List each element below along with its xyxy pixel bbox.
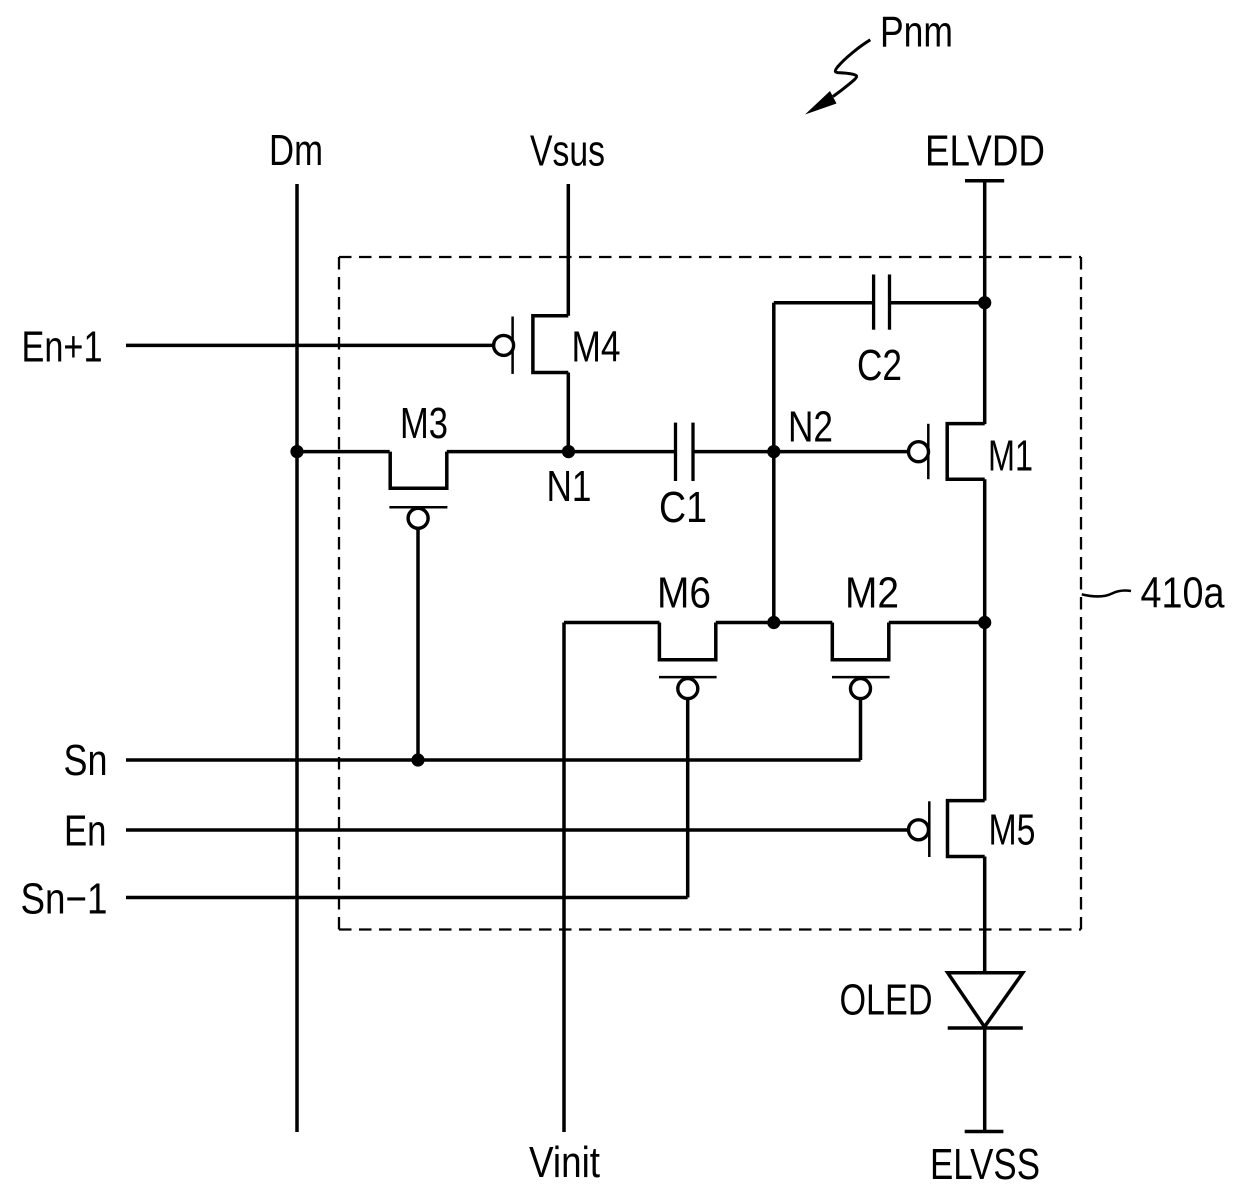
wire Dm vertical line (295, 184, 299, 1132)
wire En+1 horizontal (126, 344, 494, 348)
power terminal ELVSS (965, 1130, 1004, 1134)
svg-text:En+1: En+1 (22, 323, 103, 372)
svg-text:M2: M2 (845, 569, 899, 618)
svg-text:M6: M6 (657, 569, 711, 618)
wire rail M5 to OLED (983, 857, 987, 973)
dashed box 410a pixel boundary (339, 257, 1081, 930)
svg-text:Dm: Dm (269, 126, 323, 175)
junction dot Sn/M3 gate (411, 753, 424, 766)
svg-text:C2: C2 (857, 341, 902, 390)
capacitor C2 (874, 275, 890, 330)
wire C1 to N2 to M1 gate (693, 450, 909, 454)
node N1 junction dot (562, 445, 575, 458)
wire M4 drain to N1 (567, 373, 571, 452)
svg-text:Sn−1: Sn−1 (21, 875, 108, 924)
wire M6 to M2 row (716, 621, 833, 625)
wire M2 to ELVDD rail (889, 621, 985, 625)
wire Sn horizontal (126, 758, 861, 762)
svg-text:ELVDD: ELVDD (925, 127, 1045, 176)
wire M6/M2 row left (Vinit corner) (564, 621, 660, 625)
transistor M2 (832, 623, 890, 699)
node N2 junction dot (767, 445, 780, 458)
svg-text:N2: N2 (788, 403, 833, 452)
transistor M1 (909, 424, 985, 480)
svg-text:M5: M5 (989, 806, 1036, 855)
svg-text:M4: M4 (572, 323, 621, 372)
wire OLED to ELVSS (983, 1028, 987, 1132)
leader squiggle to 410a (1082, 590, 1131, 596)
junction dot N2 branch/row (767, 616, 780, 629)
capacitor C1 (676, 423, 694, 481)
junction dot C2/ELVDD rail (978, 296, 991, 309)
wire Vsus vertical line (567, 184, 571, 316)
svg-text:Vsus: Vsus (530, 127, 605, 176)
transistor M4 (494, 316, 569, 374)
transistor M6 (659, 623, 717, 699)
wire M2 gate stem to Sn (859, 698, 863, 760)
wire M6 gate stem to Sn-1 (686, 698, 690, 897)
power terminal ELVDD (965, 179, 1004, 183)
svg-text:N1: N1 (547, 462, 592, 511)
wire Sn-1 horizontal (126, 896, 688, 900)
svg-text:M1: M1 (988, 432, 1033, 481)
leader arrow to Pnm (805, 40, 870, 115)
transistor M5 (909, 801, 985, 857)
wire M3 to N1 to C1 (447, 450, 676, 454)
wire C2 right lead (890, 301, 985, 305)
svg-text:410a: 410a (1141, 569, 1225, 618)
svg-text:Pnm: Pnm (880, 8, 953, 57)
svg-text:Vinit: Vinit (529, 1138, 600, 1187)
junction dot row/ELVDD rail (978, 616, 991, 629)
svg-text:En: En (64, 807, 107, 856)
wire ELVDD rail upper (983, 181, 987, 424)
wire N2 vertical branch (772, 303, 776, 623)
wire Dm to M3 (297, 450, 390, 454)
wire M3 gate stem to Sn (416, 528, 420, 760)
wire rail M1 to M5 (983, 479, 987, 800)
junction dot Dm/M3 (290, 445, 303, 458)
wire Vinit vertical line (562, 623, 566, 1133)
transistor M3 (389, 452, 447, 529)
wire En horizontal (126, 828, 909, 832)
diode OLED (948, 973, 1023, 1028)
svg-text:C1: C1 (659, 483, 707, 532)
svg-text:ELVSS: ELVSS (930, 1140, 1040, 1189)
svg-text:Sn: Sn (64, 736, 108, 785)
wire C2 left lead (774, 301, 874, 305)
svg-text:M3: M3 (400, 399, 448, 448)
svg-text:OLED: OLED (840, 976, 933, 1025)
